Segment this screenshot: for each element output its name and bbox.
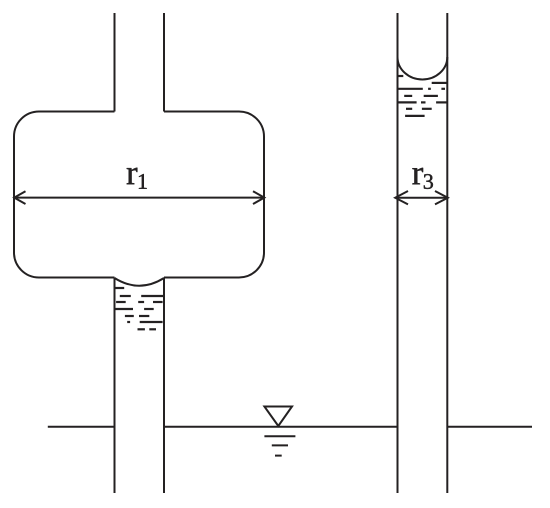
lower tube right wall	[163, 278, 165, 494]
meniscus in lower tube	[115, 278, 165, 286]
r3 dimension arrow	[395, 191, 448, 204]
upper tube right wall	[163, 13, 165, 112]
lower tube left wall	[114, 278, 116, 494]
meniscus in right tube	[398, 57, 448, 79]
label r1	[127, 168, 147, 189]
r1 dimension arrow	[14, 191, 264, 204]
right tube right wall	[446, 13, 448, 493]
liquid hatching in lower left tube	[115, 288, 165, 329]
bulb left outline	[14, 112, 115, 278]
free water surface line	[48, 426, 532, 428]
label r3	[412, 168, 433, 189]
bulb right outline	[164, 112, 264, 278]
water level symbol triangle	[264, 407, 292, 427]
upper tube left wall	[114, 13, 116, 112]
right tube left wall	[397, 13, 399, 493]
liquid hatching in right tube	[398, 76, 447, 116]
water level symbol dashes	[264, 436, 295, 455]
